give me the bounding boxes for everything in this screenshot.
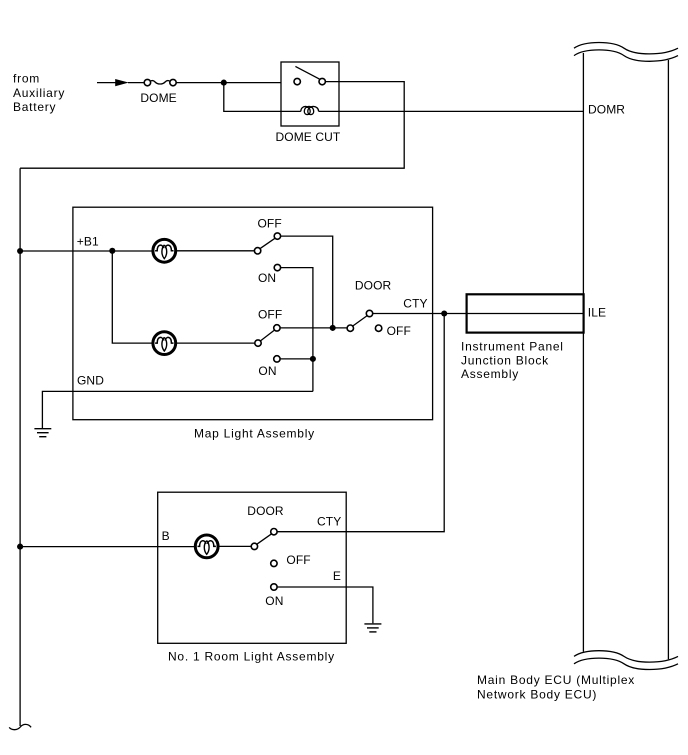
wire left rail down [19,168,21,726]
svg-text:DOMR: DOMR [588,102,625,116]
wire CTY junction down to room light [277,314,444,532]
node CTY junction [441,310,447,316]
Map Light Assembly box [73,207,433,420]
room switch blade [257,534,272,545]
svg-text:CTY: CTY [317,514,341,528]
arrow [115,79,129,86]
wire OFF2 to door switch pivot [280,327,347,329]
svg-text:Auxiliary: Auxiliary [13,86,65,100]
door switch CTY contact [366,310,372,316]
door switch blade [353,316,368,327]
svg-text:ON: ON [258,364,276,378]
No.1 Room Light Assembly box [158,492,347,643]
svg-text:CTY: CTY [403,296,427,310]
label Main Body ECU [477,673,635,701]
svg-text:Map Light Assembly: Map Light Assembly [194,426,315,440]
wire from battery [97,82,116,84]
relay switch contacts [294,78,300,84]
Instrument Panel Junction Block box [467,294,584,332]
wire ON2 to ground column [280,358,313,360]
connector bus right line [667,60,669,659]
svg-text:+B1: +B1 [77,234,99,248]
switch1 pivot contact [254,248,260,254]
room switch pivot contact [251,543,257,549]
lamp L1 [153,239,176,262]
svg-text:ON: ON [258,271,276,285]
svg-text:No. 1 Room Light Assembly: No. 1 Room Light Assembly [168,649,335,663]
svg-text:E: E [333,569,341,583]
switch2 OFF contact [274,325,280,331]
wire lamp2 to switch2 [176,342,255,344]
relay coil [301,106,319,114]
wire relay switch output to left rail [20,82,404,169]
ground symbol map light [34,429,51,437]
wire +B1 [20,250,152,252]
svg-text:Main Body ECU (Multiplex: Main Body ECU (Multiplex [477,673,635,687]
switch1 ON contact [274,264,280,270]
svg-text:Junction Block: Junction Block [461,353,549,367]
node ON junction [310,356,316,362]
wire ON1 to ground column [281,268,313,392]
lamp L3 [195,535,218,558]
svg-text:Instrument Panel: Instrument Panel [461,340,564,354]
wire ON to ground [277,587,373,623]
label: from Auxiliary Battery [13,72,65,115]
room switch ON contact [271,584,277,590]
break squiggle bottom-left [9,724,31,729]
wire branch down to lamp2 [112,251,152,343]
svg-text:Battery: Battery [13,100,56,114]
room switch DOOR contact [271,529,277,535]
node +B1 branch [109,248,115,254]
svg-text:DOOR: DOOR [247,504,284,518]
relay switch blade [295,66,319,79]
switch2 ON contact [274,356,280,362]
door switch pivot contact [347,325,353,331]
wire B [20,546,195,548]
wire junction down to coil [224,83,301,112]
svg-text:OFF: OFF [286,553,310,567]
wire OFF1 to door switch column [281,236,333,330]
wire coil to DOMR [319,110,584,112]
svg-text:ILE: ILE [588,306,606,320]
svg-text:GND: GND [77,373,104,387]
fuse DOME [144,79,176,85]
svg-text:DOME: DOME [140,91,176,105]
relay DOME CUT box [281,62,339,126]
svg-text:B: B [162,529,170,543]
break wave bottom [574,651,678,670]
ground symbol room light [364,624,381,632]
wire GND [42,391,313,428]
node on left rail at +B1 [17,248,23,254]
node OFF1/OFF2 junction [330,325,336,331]
switch2 blade [260,330,274,341]
svg-text:Assembly: Assembly [461,367,519,381]
wire lamp1 to switch1 [176,250,254,252]
door switch OFF contact [375,325,381,331]
connector bus Main Body ECU left line [582,53,584,652]
svg-text:OFF: OFF [258,216,282,230]
svg-text:from: from [13,72,40,86]
break wave top [574,43,678,62]
switch1 blade [260,238,275,249]
svg-text:OFF: OFF [387,324,411,338]
svg-text:ON: ON [265,594,283,608]
room switch OFF contact [271,560,277,566]
node junction at battery feed [221,80,227,86]
wire lamp3 to room switch [219,545,252,547]
svg-text:OFF: OFF [258,308,282,322]
svg-text:Network Body ECU): Network Body ECU) [477,688,597,702]
svg-text:DOOR: DOOR [355,278,392,292]
switch2 pivot contact [255,340,261,346]
wire arrow to fuse [128,82,144,84]
svg-text:DOME CUT: DOME CUT [276,130,341,144]
lamp L2 [153,332,176,355]
switch1 OFF contact [274,233,280,239]
node on left rail at B [17,544,23,550]
wire fuse to relay box [176,82,281,84]
wire CTY to ILE [373,313,584,315]
label Instrument Panel Junction Block Assembly [461,340,564,381]
